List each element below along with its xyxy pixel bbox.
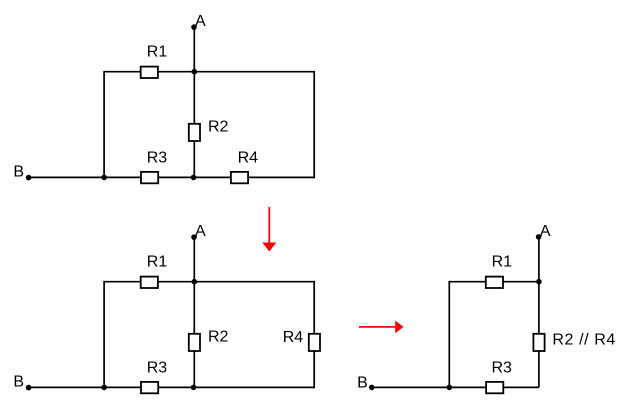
- svg-text:R2: R2: [208, 328, 229, 345]
- svg-text:R2: R2: [208, 118, 229, 135]
- svg-text:B: B: [357, 374, 368, 391]
- svg-text:A: A: [540, 223, 551, 240]
- svg-text:B: B: [13, 373, 24, 390]
- svg-text:R1: R1: [492, 253, 513, 270]
- svg-text:A: A: [195, 223, 206, 240]
- svg-text:R1: R1: [147, 253, 168, 270]
- svg-text:B: B: [13, 163, 24, 180]
- svg-text:A: A: [195, 13, 206, 30]
- svg-text:R3: R3: [147, 359, 168, 376]
- svg-text:R3: R3: [492, 359, 513, 376]
- svg-text:R2 // R4: R2 // R4: [552, 331, 616, 348]
- svg-text:R1: R1: [147, 43, 168, 60]
- svg-text:R3: R3: [147, 149, 168, 166]
- svg-text:R4: R4: [283, 329, 304, 346]
- svg-text:R4: R4: [238, 149, 259, 166]
